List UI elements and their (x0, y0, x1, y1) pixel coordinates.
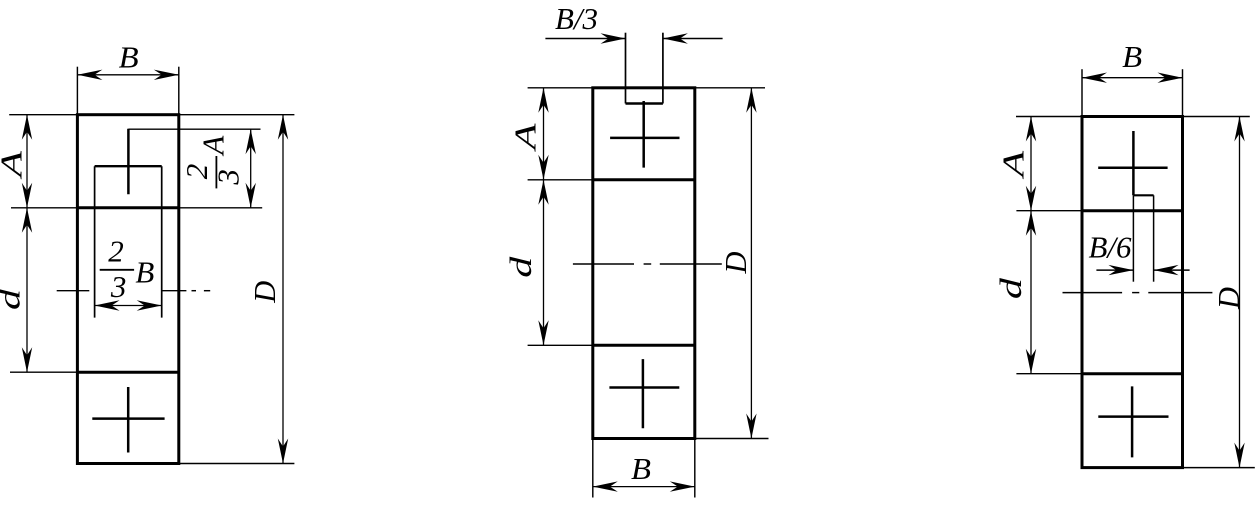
svg-text:d: d (503, 256, 538, 278)
svg-text:A: A (0, 150, 29, 180)
fig3 lower extension line (1016, 373, 1082, 375)
fig2 dimension D arrows (746, 88, 756, 439)
fig3 upper section line (1082, 209, 1183, 212)
svg-text:B: B (631, 451, 651, 486)
svg-text:D: D (718, 252, 753, 275)
fig2 bottom extension line (695, 438, 769, 440)
svg-text:2: 2 (179, 164, 214, 180)
fig1 B extension line right (178, 67, 180, 115)
fig3 outer ring rectangle (1082, 117, 1183, 468)
fig1 dimension D arrows (278, 115, 288, 464)
svg-text:B/6: B/6 (1089, 230, 1132, 265)
fig2 outer ring rectangle (593, 88, 695, 439)
fig2 dimension B arrows (593, 481, 695, 491)
fig1 bottom ball cross stem (127, 387, 130, 453)
fig1 dimension 2/3 A arrows (246, 129, 256, 208)
fig3 bottom ball cross stem (1131, 386, 1134, 457)
svg-text:3: 3 (210, 169, 245, 186)
fig1 top extension line (9, 114, 294, 116)
fig2 B extension line right (694, 439, 696, 498)
fig1 label 2/3 A (179, 135, 245, 189)
fig2 middle extension line (528, 179, 593, 181)
fig1 dimension B arrows (77, 70, 178, 80)
fig3 B extension line left (1081, 69, 1083, 116)
fig1 dimension A arrows (22, 115, 32, 208)
fig1 inner seal top edge (95, 165, 162, 167)
svg-text:A: A (995, 149, 1030, 179)
fig1 dimension d arrows (22, 208, 32, 372)
svg-text:D: D (1211, 287, 1246, 310)
svg-text:2: 2 (108, 234, 124, 269)
fig1 inner seal right edge (161, 166, 163, 317)
fig2 filling slot right edge (662, 33, 664, 104)
fig2 dimension d arrows (538, 180, 548, 345)
fig2 lower section line (593, 344, 695, 347)
fig3 B extension line right (1182, 69, 1184, 116)
fig1 B extension line left (76, 67, 78, 115)
fig2 upper section line (593, 178, 695, 181)
fig1 lower section line (77, 371, 178, 374)
fig3 top ball cross bar (1098, 167, 1167, 170)
svg-text:B/3: B/3 (555, 1, 598, 36)
fig1 bottom extension line (179, 463, 295, 465)
fig1 inner seal left edge (94, 166, 96, 317)
fig1 bottom ball cross bar (92, 417, 164, 420)
fig2 top extension line right (695, 87, 765, 89)
fig3 top ball cross stem (1132, 131, 1135, 195)
fig2 dimension B/3 arrows (545, 33, 722, 43)
fig2 dimension A arrows (538, 88, 548, 180)
svg-text:B: B (1122, 39, 1142, 74)
fig1 dimension 2/3 B arrows (95, 300, 162, 310)
fig1 middle extension line right (179, 207, 262, 209)
fig3 lower section line (1082, 372, 1183, 375)
svg-text:B: B (119, 40, 139, 75)
fig1 middle extension line left (11, 207, 77, 209)
svg-text:d: d (993, 277, 1028, 299)
fig2 lower extension line (528, 344, 593, 346)
fig2 top extension line left (528, 87, 593, 89)
svg-text:3: 3 (110, 269, 127, 304)
fig3 middle extension line (1016, 210, 1082, 212)
svg-text:D: D (247, 281, 282, 304)
fig2 bottom ball cross stem (642, 359, 645, 428)
fig3 dimension D arrows (1234, 117, 1244, 468)
svg-text:d: d (0, 288, 27, 310)
fig1 outer ring rectangle (77, 115, 178, 464)
fig3 dimension B/6 arrows (1096, 265, 1189, 275)
fig1 stem-top extension line (128, 128, 260, 130)
svg-text:B: B (135, 255, 154, 290)
fig3 snap ring left extension (1132, 195, 1134, 281)
fig1 axis centerline (57, 290, 211, 292)
fig2 top ball cross bar (610, 137, 679, 140)
svg-text:A: A (507, 122, 542, 152)
fig3 axis centerline (1063, 292, 1213, 294)
fig3 top extension line (1016, 116, 1250, 118)
fig2 filling slot left edge (625, 33, 627, 104)
svg-text:A: A (196, 135, 231, 157)
fig1 lower-left extension line (10, 371, 77, 373)
fig2 bottom ball cross bar (609, 386, 679, 389)
fig3 snap ring step horizontal (1133, 194, 1153, 196)
fig2 filling slot bottom (626, 102, 663, 105)
fig3 dimension d arrows (1026, 211, 1036, 374)
fig2 axis centerline (573, 263, 722, 265)
fig3 dimension B arrows (1082, 73, 1183, 83)
fig3 bottom extension line (1183, 467, 1255, 469)
fig1 top ball center stem (127, 129, 130, 195)
fig3 snap ring right edge (1153, 195, 1155, 281)
fig1 label 2/3 B (100, 234, 155, 305)
fig1 upper section line (77, 206, 178, 209)
fig3 bottom ball cross bar (1098, 415, 1168, 418)
fig2 B extension line left (592, 439, 594, 498)
fig3 dimension A arrows (1026, 117, 1036, 211)
fig2 top ball cross stem (642, 101, 645, 168)
